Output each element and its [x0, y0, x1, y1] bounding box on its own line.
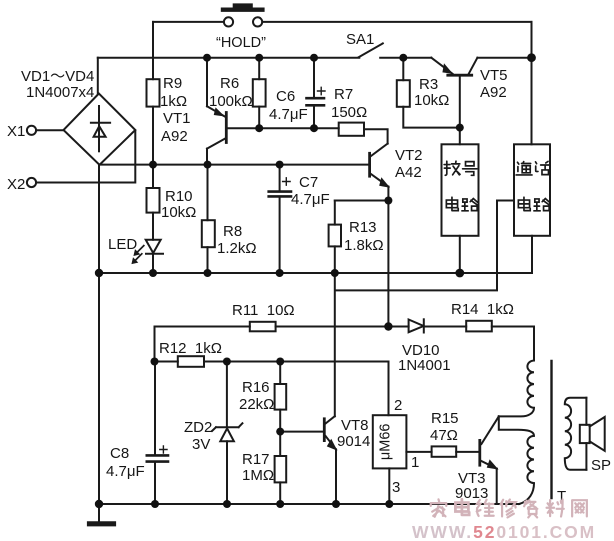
label talk circuit chars — [516, 161, 550, 210]
svg-text:R16: R16 — [242, 379, 270, 396]
svg-text:1N4001: 1N4001 — [398, 357, 451, 374]
junction: R11/R12/C8 node — [151, 358, 159, 366]
junction: C7 bottom on middle rail — [276, 269, 284, 277]
wire middle rail (y=273) — [99, 272, 532, 274]
resistor R13 — [329, 201, 341, 274]
wire VT5 collector to node — [477, 57, 531, 59]
transistor VT3 — [480, 416, 499, 504]
resistor R11 — [250, 322, 409, 332]
dial circuit box (bo-hao dian-lu) — [442, 144, 479, 273]
svg-text:4.7μF: 4.7μF — [269, 106, 308, 123]
svg-text:A92: A92 — [161, 128, 188, 145]
wire hold-right to right drop — [263, 21, 532, 23]
wire uM66 pin1 to R15 — [406, 451, 431, 453]
junction: C8 bottom on bottom rail — [151, 500, 159, 508]
wire top-left corner down to bridge — [97, 58, 99, 94]
svg-text:3V: 3V — [192, 436, 210, 453]
svg-text:C8: C8 — [110, 445, 129, 462]
terminal X2 — [27, 131, 135, 188]
transistor VT5 — [431, 58, 477, 145]
resistor R9 — [147, 79, 160, 164]
svg-text:22kΩ: 22kΩ — [239, 396, 274, 413]
resistor R7 — [339, 123, 388, 144]
svg-text:R10: R10 — [165, 188, 193, 205]
terminal X1 — [27, 126, 64, 135]
transformer T primary bottom winding — [499, 416, 534, 504]
junction: LED cathode on middle rail — [149, 269, 157, 277]
speaker SP — [580, 398, 605, 470]
wire top rail right segment to VT5 emitter — [403, 57, 431, 59]
svg-text:2: 2 — [394, 397, 402, 414]
transformer T primary top winding — [499, 361, 534, 417]
pushbutton "HOLD" switch — [223, 6, 262, 27]
zener diode ZD2 — [212, 362, 242, 505]
wire R11 line left corner — [155, 327, 250, 362]
svg-text:X2: X2 — [7, 176, 25, 193]
svg-text:R6: R6 — [220, 75, 239, 92]
junction: VD10 anode node — [384, 322, 392, 330]
transformer secondary winding — [565, 398, 587, 470]
svg-text:ZD2: ZD2 — [184, 419, 212, 436]
resistor R8 — [202, 165, 215, 273]
svg-text:R8: R8 — [223, 223, 242, 240]
svg-text:R17: R17 — [242, 451, 270, 468]
junction: VT1 emitter on top rail — [203, 54, 211, 62]
svg-text:R13: R13 — [349, 219, 377, 236]
junction: uM66 pin3 on bottom rail — [385, 500, 393, 508]
wire uM66 pin2 from R12 line — [388, 362, 390, 416]
svg-text:X1: X1 — [7, 123, 25, 140]
capacitor C7 — [269, 165, 291, 273]
svg-text:VT1: VT1 — [163, 110, 191, 127]
wire R12 line — [155, 361, 178, 363]
svg-text:1kΩ: 1kΩ — [160, 93, 187, 110]
junction: ZD2 top on R12 line — [223, 358, 231, 366]
LED — [132, 240, 163, 273]
svg-text:10kΩ: 10kΩ — [414, 92, 449, 109]
wire right drop to talk-circuit node — [531, 22, 533, 144]
junction: R17 bottom on bottom rail — [276, 500, 284, 508]
transistor VT1 — [207, 58, 226, 165]
svg-text:1N4007x4: 1N4007x4 — [26, 84, 94, 101]
resistor R3 — [397, 58, 460, 128]
svg-text:VD1〜VD4: VD1〜VD4 — [21, 68, 94, 85]
transformer core — [550, 361, 552, 498]
svg-text:1.2kΩ: 1.2kΩ — [217, 240, 257, 257]
junction: left rail on middle rail — [95, 269, 103, 277]
svg-text:47Ω: 47Ω — [430, 427, 458, 444]
capacitor C8 — [147, 362, 168, 505]
transistor VT2 — [370, 144, 389, 201]
svg-text:VT8: VT8 — [341, 417, 369, 434]
junction: VT8 emitter on bottom rail — [332, 500, 340, 508]
svg-text:μM66: μM66 — [378, 424, 394, 461]
junction: R3 top on top rail — [399, 54, 407, 62]
junction: R16 top on R12 line — [276, 358, 284, 366]
wire vertical hold to rail at R9 — [152, 22, 154, 79]
junction: VT2 emitter / R13 node — [384, 197, 392, 205]
wire VT2 emitter down to VD10 node — [387, 201, 389, 327]
svg-text:3: 3 — [392, 479, 400, 496]
svg-text:SA1: SA1 — [346, 31, 374, 48]
resistor R6 — [253, 58, 266, 129]
junction: R6 top on top rail — [255, 54, 263, 62]
resistor R10 — [147, 165, 160, 240]
junction: hold line / VT5 collector node — [527, 53, 536, 62]
svg-text:R15: R15 — [431, 410, 459, 427]
diode VD10 — [409, 319, 467, 332]
switch SA1 — [359, 43, 403, 57]
talk circuit box (tong-hua dian-lu) — [335, 144, 550, 416]
transistor VT8 — [280, 416, 336, 504]
bridge rectifier VD1~VD4 — [64, 94, 136, 165]
label dial circuit chars — [444, 161, 477, 211]
junction: R8 bottom on middle rail — [204, 269, 212, 277]
svg-text:R3: R3 — [419, 76, 438, 93]
svg-text:WWW.520101.COM: WWW.520101.COM — [412, 522, 596, 541]
wire R13 top to VT2 emitter — [335, 200, 389, 202]
junction: C6 top on top rail — [310, 54, 318, 62]
ground — [90, 504, 114, 524]
resistor R16 — [275, 362, 287, 432]
junction: R3 bottom / VT5 base node — [456, 124, 464, 132]
capacitor C6 — [307, 58, 326, 129]
svg-text:C6: C6 — [276, 88, 295, 105]
svg-text:4.7μF: 4.7μF — [291, 191, 330, 208]
svg-text:1: 1 — [411, 454, 419, 471]
wire uM66 pin3 to bottom rail — [388, 468, 390, 504]
wire hold-left — [153, 21, 224, 23]
wire collector-R10-C7 line (y=164.6) — [99, 164, 368, 166]
svg-text:SP: SP — [591, 457, 611, 474]
junction: R16/R17/VT8 base node — [276, 428, 284, 436]
junction: R6 bottom on VT1 base line — [255, 124, 263, 132]
svg-text:A92: A92 — [480, 84, 507, 101]
wire top rail left segment — [98, 57, 360, 59]
svg-text:R7: R7 — [334, 86, 353, 103]
wire VT1 base line to R7 — [228, 127, 339, 129]
svg-text:1.8kΩ: 1.8kΩ — [344, 237, 384, 254]
resistor R14 — [466, 321, 534, 361]
svg-text:10kΩ: 10kΩ — [161, 204, 196, 221]
svg-text:1MΩ: 1MΩ — [242, 467, 274, 484]
svg-text:9014: 9014 — [337, 433, 370, 450]
junction: R13 bottom / VT8 collector on middle rail — [331, 269, 339, 277]
junction: ground node on bottom rail — [95, 500, 103, 508]
junction: R9/R10 node — [149, 161, 157, 169]
resistor R12 — [178, 356, 389, 367]
svg-text:R12 1kΩ: R12 1kΩ — [159, 340, 222, 357]
svg-text:9013: 9013 — [455, 485, 488, 502]
junction: ZD2 anode on bottom rail — [223, 500, 231, 508]
svg-text:R9: R9 — [163, 75, 182, 92]
svg-text:C7: C7 — [299, 174, 318, 191]
junction: C6 bottom on VT1 base line — [310, 124, 318, 132]
svg-text:VT5: VT5 — [480, 67, 508, 84]
IC uM66 — [373, 415, 407, 468]
svg-text:4.7μF: 4.7μF — [106, 463, 145, 480]
svg-text:LED: LED — [108, 236, 137, 253]
junction: dial circuit bottom on middle rail — [455, 269, 464, 278]
svg-text:R11 10Ω: R11 10Ω — [232, 302, 295, 319]
resistor R15 — [432, 446, 479, 456]
svg-text:150Ω: 150Ω — [331, 104, 367, 121]
svg-text:R14 1kΩ: R14 1kΩ — [451, 301, 514, 318]
watermark line 1 — [431, 499, 587, 517]
resistor R17 — [275, 432, 287, 504]
svg-text:“HOLD”: “HOLD” — [216, 35, 266, 51]
junction: C7 top node — [276, 161, 284, 169]
wire bottom rail — [99, 503, 519, 505]
wire left vertical rail — [98, 165, 100, 504]
svg-text:A42: A42 — [395, 164, 422, 181]
junction: VT1 collector / R8 node — [204, 161, 212, 169]
svg-text:VT2: VT2 — [395, 147, 423, 164]
